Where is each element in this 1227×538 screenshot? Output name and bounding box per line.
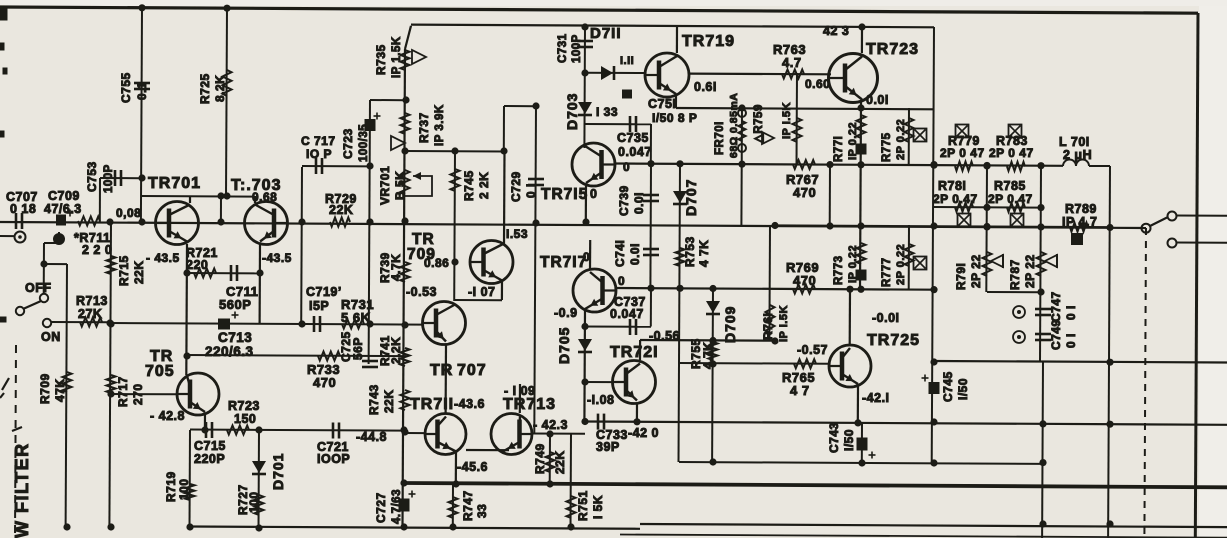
svg-text:0.86: 0.86 [424, 256, 449, 270]
svg-text:100: 100 [177, 478, 191, 500]
svg-text:0.047: 0.047 [610, 307, 644, 321]
svg-text:-0.53: -0.53 [406, 285, 437, 299]
svg-text:D709: D709 [722, 306, 738, 343]
svg-text:22K: 22K [382, 389, 396, 413]
svg-text:-0.56: -0.56 [649, 329, 680, 343]
svg-text:R789: R789 [1065, 202, 1097, 216]
svg-text:TR72I: TR72I [610, 344, 659, 361]
svg-text:-0.0I: -0.0I [872, 311, 900, 325]
svg-text:R719: R719 [164, 471, 178, 502]
svg-text:R717: R717 [116, 376, 130, 407]
svg-text:OFF: OFF [25, 281, 52, 295]
svg-text:270: 270 [131, 383, 145, 405]
svg-text:220: 220 [186, 258, 208, 272]
svg-text:IP 0.22: IP 0.22 [847, 245, 859, 283]
svg-text:56P: 56P [351, 337, 365, 360]
svg-text:2P 0.47: 2P 0.47 [988, 192, 1033, 206]
svg-text:470: 470 [793, 185, 816, 200]
svg-text:R751: R751 [576, 490, 590, 521]
svg-text:-43.6: -43.6 [454, 397, 485, 411]
svg-text:R747: R747 [461, 490, 475, 521]
svg-text:0.0I: 0.0I [628, 243, 642, 265]
svg-text:C731: C731 [557, 33, 569, 63]
svg-text:-I.08: -I.08 [587, 393, 615, 407]
svg-text:TR723: TR723 [866, 41, 919, 58]
svg-text:0 I: 0 I [524, 183, 538, 198]
svg-text:TR725: TR725 [867, 332, 920, 349]
svg-text:2P 22: 2P 22 [1023, 254, 1037, 288]
svg-text:FR70I: FR70I [714, 121, 726, 155]
svg-text:IP 4.7: IP 4.7 [1062, 215, 1097, 229]
svg-text:-I 07: -I 07 [468, 285, 496, 299]
svg-text:R77I: R77I [833, 136, 845, 162]
svg-text:R709: R709 [38, 373, 52, 404]
svg-text:0.1: 0.1 [135, 82, 149, 100]
svg-text:IP 0.22: IP 0.22 [847, 122, 859, 160]
svg-text:- I 09: - I 09 [504, 384, 536, 398]
svg-text:220/6.3: 220/6.3 [205, 344, 254, 359]
svg-text:ON: ON [41, 330, 61, 344]
svg-text:2 2K: 2 2K [477, 172, 491, 199]
svg-text:R725: R725 [198, 73, 212, 104]
svg-text:D701: D701 [270, 453, 286, 490]
svg-text:4.7: 4.7 [782, 55, 802, 70]
svg-text:150: 150 [234, 412, 256, 426]
svg-text:C75I: C75I [648, 97, 676, 111]
svg-text:4.7K: 4.7K [389, 254, 403, 281]
svg-text:W FILTER: W FILTER [12, 442, 32, 538]
svg-text:B 5K: B 5K [393, 171, 407, 200]
svg-text:0.047: 0.047 [618, 145, 652, 159]
svg-text:2P 0 47: 2P 0 47 [989, 146, 1034, 160]
svg-text:D7II: D7II [590, 25, 622, 42]
svg-text:TR7I5: TR7I5 [541, 186, 588, 203]
svg-text:R743: R743 [367, 384, 381, 415]
svg-text:2P 22: 2P 22 [969, 254, 983, 288]
svg-text:IO P: IO P [306, 147, 332, 161]
svg-text:47/6.3: 47/6.3 [44, 202, 82, 216]
svg-text:IP 1.5K: IP 1.5K [391, 36, 403, 78]
svg-text:R715: R715 [117, 255, 131, 286]
svg-text:D705: D705 [556, 327, 572, 364]
svg-text:C745: C745 [941, 371, 955, 402]
svg-text:R749: R749 [533, 443, 547, 474]
svg-text:68Ω 0.85mA: 68Ω 0.85mA [728, 93, 740, 158]
svg-text:C719’: C719’ [306, 285, 342, 299]
svg-text:TR713: TR713 [503, 396, 556, 413]
svg-text:2P 0.47: 2P 0.47 [933, 192, 978, 206]
svg-text:100P: 100P [571, 34, 583, 63]
svg-text:C 717: C 717 [301, 134, 336, 148]
svg-text:I 5K: I 5K [591, 495, 605, 519]
svg-text:R737: R737 [417, 112, 431, 143]
svg-text:I 33: I 33 [596, 105, 618, 119]
svg-text:IP I.5K: IP I.5K [781, 102, 793, 139]
svg-text:C735: C735 [617, 131, 649, 145]
svg-text:- 42.8: - 42.8 [150, 409, 185, 423]
svg-text:TR7II: TR7II [410, 396, 454, 413]
svg-text:707: 707 [457, 362, 487, 379]
svg-text:R76I: R76I [761, 313, 775, 340]
svg-text:470: 470 [313, 375, 336, 390]
svg-text:TR701: TR701 [148, 175, 201, 192]
svg-text:C715: C715 [194, 439, 226, 453]
svg-text:R775: R775 [881, 132, 893, 162]
svg-text:42 3: 42 3 [823, 24, 849, 38]
svg-text:0 I: 0 I [1064, 305, 1078, 320]
svg-text:100P: 100P [103, 164, 115, 193]
svg-text:0 18: 0 18 [10, 202, 36, 216]
svg-text:R753: R753 [683, 236, 697, 267]
svg-text:I/50: I/50 [842, 429, 856, 451]
svg-text:47K: 47K [53, 378, 67, 402]
svg-text:R777: R777 [881, 258, 893, 288]
svg-text:0.0I: 0.0I [632, 192, 646, 214]
svg-text:C749: C749 [1049, 319, 1063, 350]
svg-text:100/35: 100/35 [358, 124, 370, 162]
svg-text:C727: C727 [374, 492, 388, 523]
svg-text:5 6K: 5 6K [341, 310, 371, 325]
svg-text:100: 100 [247, 491, 261, 513]
svg-text:220P: 220P [194, 452, 225, 466]
svg-text:- 43.5: - 43.5 [146, 251, 180, 265]
svg-text:8.2K: 8.2K [213, 75, 227, 102]
svg-text:2P 0.22: 2P 0.22 [895, 119, 907, 160]
svg-text:2P 0 47: 2P 0 47 [940, 146, 985, 160]
svg-text:-0.9: -0.9 [554, 306, 578, 320]
svg-text:22K: 22K [553, 450, 567, 474]
svg-text:2P 0.22: 2P 0.22 [895, 244, 907, 285]
svg-text:4.7/63: 4.7/63 [391, 489, 403, 524]
svg-text:-0.57: -0.57 [797, 343, 828, 357]
svg-text:-43.5: -43.5 [262, 251, 292, 265]
svg-text:- 42.3: - 42.3 [533, 418, 568, 432]
svg-text:27K: 27K [78, 307, 102, 321]
svg-text:0,08: 0,08 [116, 206, 141, 220]
svg-text:0.0I: 0.0I [866, 93, 889, 107]
svg-text:R745: R745 [462, 170, 476, 201]
svg-text:22K: 22K [132, 260, 146, 284]
svg-text:0: 0 [618, 274, 625, 288]
svg-text:VR701: VR701 [378, 166, 392, 205]
svg-text:560P: 560P [219, 297, 251, 312]
svg-text:IP 3.9K: IP 3.9K [434, 104, 446, 146]
svg-text:4 7: 4 7 [790, 383, 810, 398]
svg-text:C709: C709 [48, 189, 80, 203]
svg-text:D703: D703 [564, 93, 580, 130]
svg-text:0: 0 [590, 187, 597, 201]
svg-text:-44.8: -44.8 [356, 430, 387, 444]
svg-text:I5P: I5P [309, 299, 329, 313]
svg-text:IP I.5K: IP I.5K [778, 305, 790, 342]
svg-text:R773: R773 [833, 256, 845, 286]
svg-text:I/50: I/50 [956, 378, 970, 400]
svg-text:470: 470 [793, 273, 816, 288]
svg-text:-42 0: -42 0 [628, 426, 659, 440]
svg-text:R785: R785 [994, 179, 1026, 193]
svg-text:C723: C723 [341, 128, 355, 159]
svg-text:39P: 39P [596, 440, 620, 454]
svg-text:C755: C755 [119, 72, 133, 103]
svg-text:-42.I: -42.I [862, 391, 890, 405]
svg-text:C743: C743 [827, 422, 841, 453]
svg-text:0 I: 0 I [1064, 333, 1078, 348]
svg-text:0.68: 0.68 [252, 190, 277, 204]
svg-text:R78I: R78I [938, 179, 966, 193]
svg-text:I.II: I.II [620, 55, 634, 67]
svg-text:33: 33 [475, 504, 489, 518]
svg-text:2 2 0: 2 2 0 [82, 243, 112, 257]
svg-text:TR: TR [430, 362, 453, 379]
svg-text:4 7K: 4 7K [697, 240, 711, 267]
svg-text:R723: R723 [228, 399, 260, 413]
svg-text:C74I: C74I [613, 240, 627, 267]
svg-text:I.53: I.53 [506, 227, 528, 241]
svg-text:R713: R713 [76, 294, 108, 308]
svg-text:2.2K: 2.2K [389, 337, 403, 364]
svg-text:0: 0 [583, 250, 590, 264]
svg-text:4.7K: 4.7K [701, 342, 715, 369]
svg-text:C747: C747 [1049, 291, 1063, 322]
svg-text:-45.6: -45.6 [457, 460, 488, 474]
svg-text:△R759: △R759 [753, 104, 765, 144]
svg-text:IOOP: IOOP [317, 452, 350, 466]
svg-text:L 70I: L 70I [1059, 135, 1090, 149]
svg-text:C739: C739 [617, 185, 631, 216]
svg-text:I/50 8 P: I/50 8 P [652, 111, 697, 125]
svg-text:C713: C713 [218, 330, 252, 345]
svg-text:22K: 22K [329, 203, 353, 217]
svg-text:0.60: 0.60 [805, 77, 830, 91]
svg-text:TR7I7: TR7I7 [540, 254, 587, 271]
svg-text:C753: C753 [85, 161, 99, 192]
svg-text:R787: R787 [1008, 259, 1022, 290]
svg-text:C729: C729 [509, 171, 523, 202]
svg-text:0.6I: 0.6I [694, 80, 717, 94]
svg-text:R79I: R79I [954, 263, 968, 290]
svg-text:D707: D707 [683, 179, 699, 216]
svg-text:705: 705 [145, 363, 175, 380]
svg-text:2 μH: 2 μH [1063, 148, 1092, 162]
svg-text:R735: R735 [374, 44, 388, 75]
svg-text:0: 0 [623, 160, 630, 174]
svg-text:TR719: TR719 [682, 33, 735, 50]
